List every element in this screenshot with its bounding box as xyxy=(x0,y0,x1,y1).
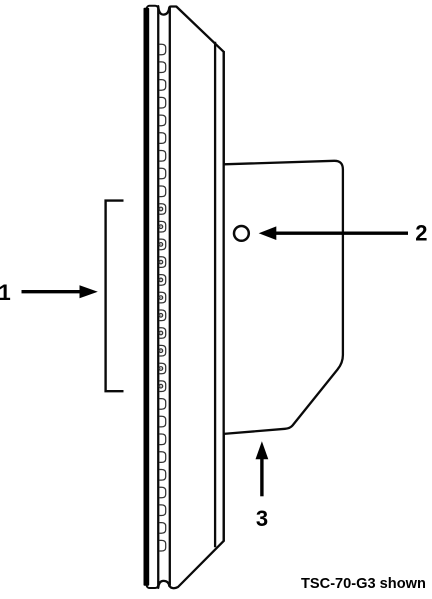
svg-text:3: 3 xyxy=(256,506,268,531)
svg-text:TSC-70-G3 shown: TSC-70-G3 shown xyxy=(301,576,426,592)
svg-text:1: 1 xyxy=(0,280,11,305)
svg-text:2: 2 xyxy=(415,220,427,245)
